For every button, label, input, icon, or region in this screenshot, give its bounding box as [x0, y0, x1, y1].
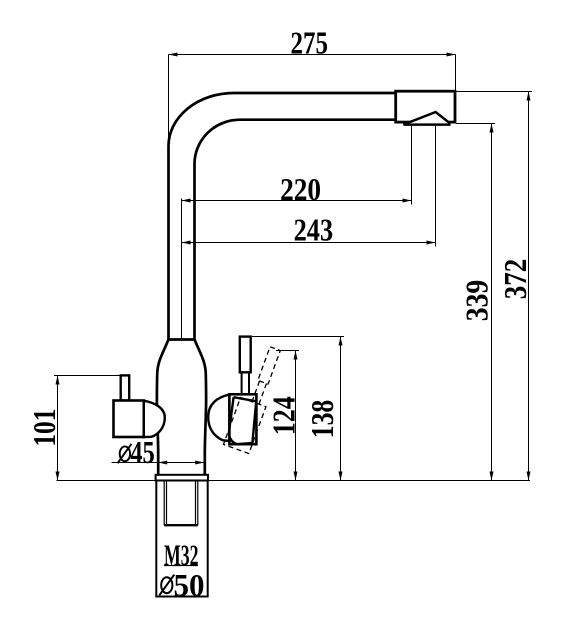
dimension 138 line: [340, 337, 342, 481]
arrow 243 right: [427, 241, 436, 245]
arrow 101 bottom: [56, 472, 60, 481]
svg-text:275: 275: [290, 25, 328, 61]
svg-text:220: 220: [280, 171, 321, 207]
dimension 339 extension top: [456, 123, 495, 125]
shank outline: [156, 481, 207, 597]
dimension 220 extension right: [411, 125, 413, 205]
arrow 339 top: [490, 124, 494, 133]
arrow D45 left: [158, 461, 167, 465]
dimension 138 extension top: [252, 336, 344, 338]
dimension D45 leader line: [112, 462, 205, 464]
arrow 372 top: [527, 92, 531, 101]
dimension 101 extension top: [54, 375, 121, 377]
pipe joint line: [169, 338, 195, 341]
svg-text:124: 124: [265, 396, 301, 435]
dimension 275 extension right: [455, 55, 457, 92]
label D50 symbol: [161, 577, 172, 593]
right handle lever tilted: [229, 397, 256, 444]
spout head block: [396, 91, 455, 122]
base flange: [156, 475, 208, 481]
arrow 124 bottom: [294, 472, 298, 481]
arrow 138 top: [339, 337, 343, 346]
left handle body: [114, 401, 144, 438]
thread lines: [164, 481, 198, 526]
arrow 372 bottom: [527, 472, 531, 481]
svg-text:101: 101: [26, 409, 62, 447]
svg-text:45: 45: [130, 434, 155, 470]
thread bottom line: [164, 524, 198, 526]
left handle stem: [121, 375, 130, 400]
arrow 275 left: [169, 53, 178, 57]
pipe centerline extension: [181, 199, 183, 340]
dimension 124 extension top: [276, 350, 299, 352]
svg-text:138: 138: [304, 400, 340, 439]
arrow 124 top: [294, 351, 298, 360]
arrow 138 bottom: [339, 472, 343, 481]
right handle stem: [240, 337, 251, 373]
M32 underline: [164, 565, 198, 567]
body left contour: [157, 340, 169, 475]
dimension 275 line: [169, 54, 456, 56]
dimension 243 line: [182, 242, 436, 244]
svg-text:339: 339: [459, 280, 495, 322]
spout inner contour (elbow): [195, 120, 396, 340]
deck line: [57, 480, 531, 482]
dimension 124 line: [295, 351, 297, 481]
arrow 243 left: [182, 241, 191, 245]
arrow 339 bottom: [490, 472, 494, 481]
right handle body: [229, 394, 256, 444]
body right contour: [195, 340, 207, 475]
right handle dashed alternate position: [223, 343, 285, 453]
left handle cap: [144, 401, 165, 437]
aerator nozzle: [404, 112, 450, 125]
arrow D45 right: [195, 461, 204, 465]
right handle cap: [208, 395, 229, 441]
arrow 101 top: [56, 376, 60, 385]
right handle stem lower: [242, 372, 249, 394]
dimension 372 line: [528, 92, 530, 481]
svg-text:50: 50: [174, 567, 205, 603]
dimension 275 extension left: [168, 55, 170, 147]
svg-text:243: 243: [294, 212, 334, 248]
dimension 372 extension top: [456, 91, 532, 93]
arrow 220 left: [182, 199, 191, 203]
dimension 220 line: [182, 200, 412, 202]
dimension 339 line: [491, 124, 493, 481]
spout outer contour (elbow): [169, 93, 396, 340]
dimension 101 line: [57, 376, 59, 481]
arrow 275 right: [447, 53, 456, 57]
arrow 220 right: [403, 199, 412, 203]
dimension 243 extension right: [435, 125, 437, 247]
svg-text:372: 372: [497, 259, 533, 300]
label D45 symbol: [120, 446, 130, 461]
